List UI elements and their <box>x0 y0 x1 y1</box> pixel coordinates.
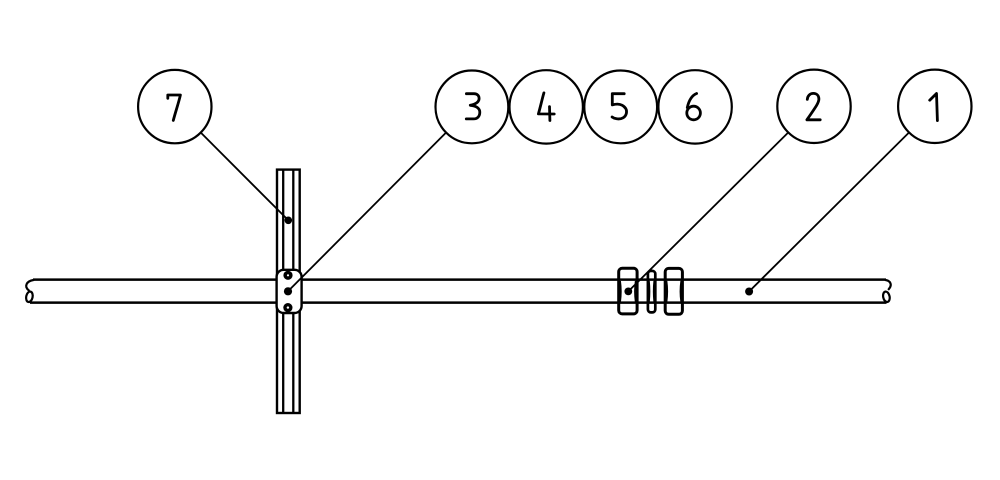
balloon 3 circle <box>436 71 509 144</box>
digit 6 <box>687 94 701 120</box>
leader dot balloon 1 <box>745 288 753 296</box>
tube left break symbol <box>25 280 33 303</box>
tube P1 top line <box>33 278 886 281</box>
clamp screw top <box>283 271 292 280</box>
coupling left nut P? <box>619 268 637 314</box>
digit 7 <box>168 95 181 120</box>
digit 3 <box>466 94 480 119</box>
vertical boom P7 inner line left <box>282 170 284 413</box>
clamp plate P3 <box>277 270 302 313</box>
digit 2 <box>807 93 820 119</box>
balloon 2 circle <box>777 70 850 143</box>
leader line balloon 7 <box>201 133 288 221</box>
balloon 5 circle <box>584 71 657 144</box>
leader line balloon 1 <box>749 133 909 292</box>
leader dot balloon 2 <box>624 288 632 296</box>
tube right break symbol <box>882 280 891 303</box>
leader line balloon 3 <box>288 133 446 292</box>
balloon 6 circle <box>658 70 731 143</box>
balloon 4 circle <box>510 70 583 143</box>
leader dot balloon 3 <box>284 287 292 295</box>
coupling middle ring <box>648 271 655 313</box>
digit 5 <box>612 94 626 119</box>
vertical boom P7 inner line right <box>292 170 294 413</box>
vertical boom P7 outer rect <box>277 170 300 413</box>
balloon 1 circle <box>898 70 971 143</box>
tube P1 bottom line <box>30 301 887 304</box>
digit 4 <box>538 93 554 121</box>
leader dot balloon 7 <box>285 217 293 225</box>
leader line balloon 2 <box>628 133 788 292</box>
digit 1 <box>930 94 938 121</box>
clamp screw bottom <box>283 303 292 312</box>
balloon 7 circle <box>138 70 211 143</box>
coupling right nut <box>665 268 682 314</box>
